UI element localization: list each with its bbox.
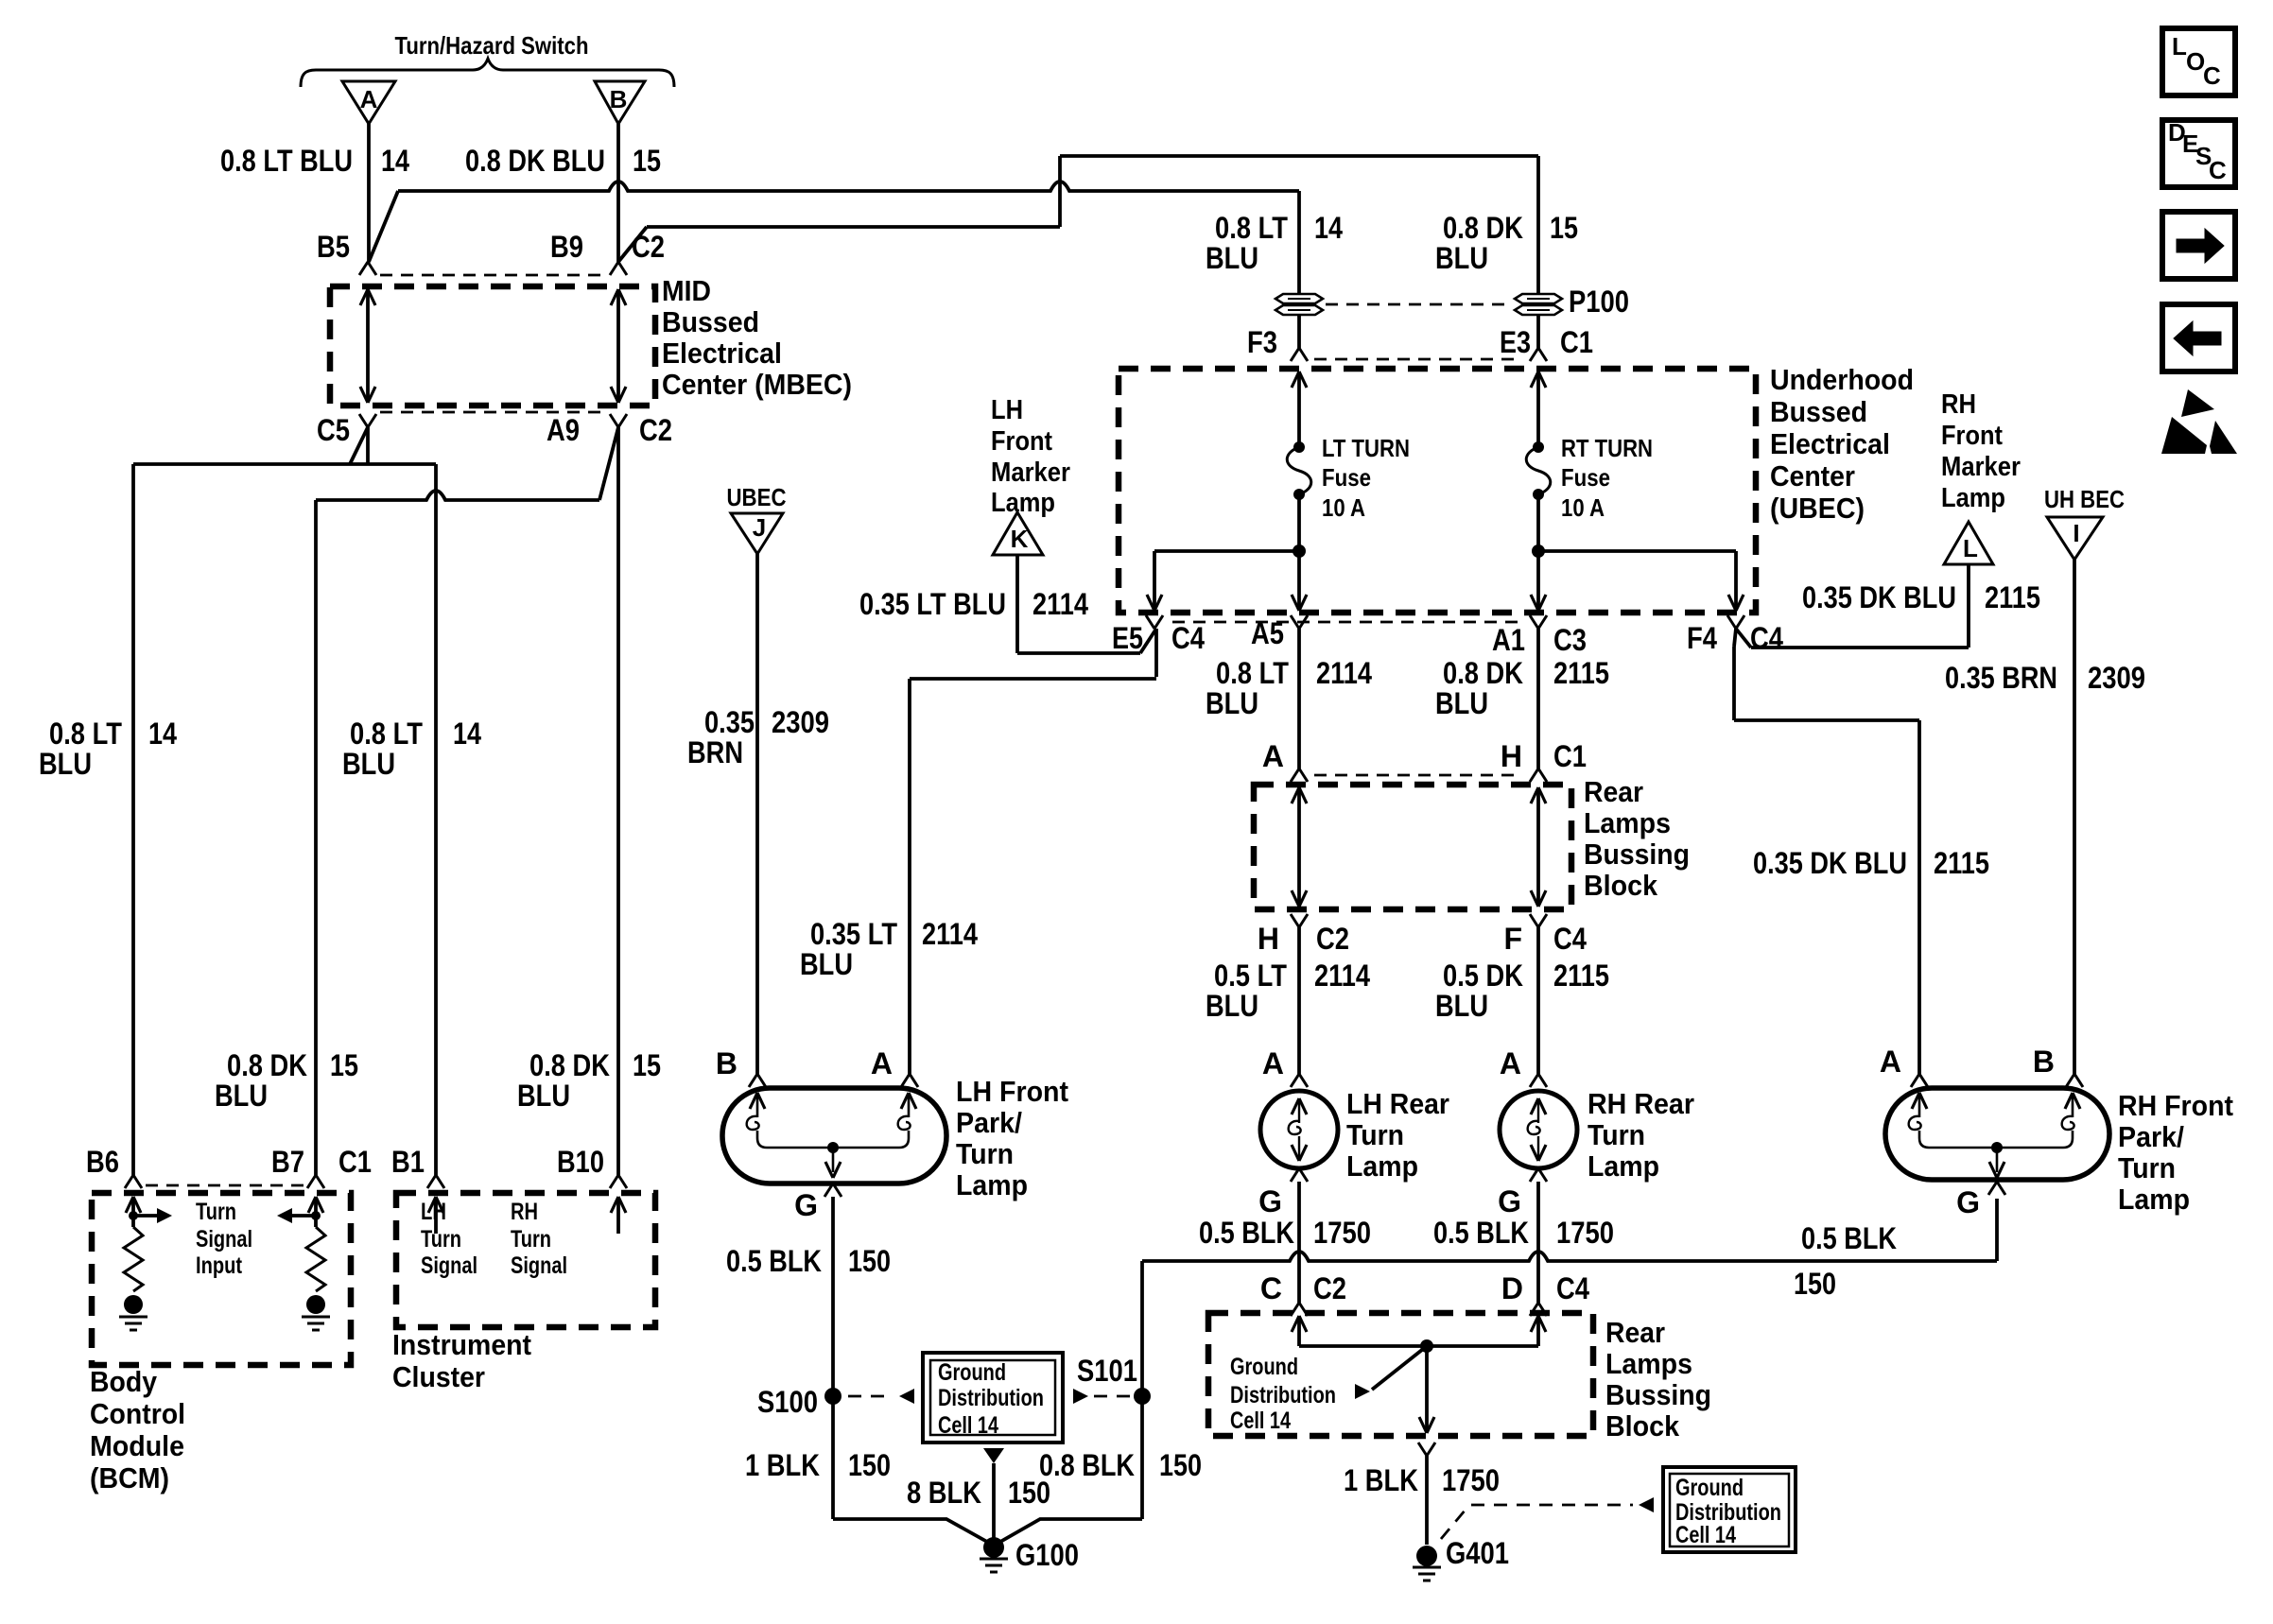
svg-text:LH: LH — [421, 1199, 446, 1225]
svg-text:Distribution: Distribution — [938, 1385, 1044, 1411]
svg-text:8 BLK: 8 BLK — [907, 1476, 981, 1510]
svg-text:H: H — [1258, 922, 1279, 956]
svg-text:Block: Block — [1605, 1409, 1680, 1443]
svg-text:G401: G401 — [1446, 1536, 1509, 1570]
svg-text:G: G — [1498, 1184, 1521, 1218]
svg-text:Block: Block — [1584, 869, 1658, 902]
svg-text:15: 15 — [330, 1048, 358, 1082]
svg-text:1 BLK: 1 BLK — [745, 1448, 820, 1482]
svg-text:C1: C1 — [1553, 739, 1587, 773]
svg-text:Turn: Turn — [1346, 1118, 1404, 1151]
svg-text:B: B — [610, 85, 628, 113]
svg-text:0.5 LT: 0.5 LT — [1214, 959, 1287, 993]
svg-text:BLU: BLU — [1206, 241, 1258, 275]
svg-text:Instrument: Instrument — [392, 1328, 531, 1361]
svg-text:2115: 2115 — [1934, 846, 1989, 880]
svg-text:A9: A9 — [547, 413, 580, 447]
svg-text:0.8 DK: 0.8 DK — [227, 1048, 307, 1082]
svg-text:0.35: 0.35 — [704, 705, 755, 739]
svg-text:Lamp: Lamp — [1588, 1149, 1659, 1183]
svg-text:LH Rear: LH Rear — [1346, 1087, 1449, 1120]
svg-text:Lamp: Lamp — [2118, 1183, 2190, 1216]
svg-text:A: A — [1880, 1045, 1901, 1079]
svg-text:BLU: BLU — [215, 1079, 268, 1113]
svg-text:2309: 2309 — [772, 705, 829, 739]
svg-text:0.8 LT: 0.8 LT — [49, 717, 122, 751]
svg-text:2115: 2115 — [1553, 959, 1609, 993]
svg-text:Turn/Hazard Switch: Turn/Hazard Switch — [395, 31, 589, 60]
svg-text:Turn: Turn — [2118, 1151, 2176, 1184]
svg-text:150: 150 — [1159, 1448, 1202, 1482]
svg-text:B: B — [716, 1046, 737, 1080]
svg-text:MID: MID — [662, 274, 711, 307]
svg-text:Center (MBEC): Center (MBEC) — [662, 368, 852, 401]
svg-text:LH: LH — [991, 395, 1023, 425]
svg-text:B9: B9 — [550, 230, 583, 264]
svg-text:B1: B1 — [391, 1145, 425, 1179]
svg-text:A: A — [871, 1046, 893, 1080]
svg-text:15: 15 — [633, 144, 661, 178]
svg-text:14: 14 — [453, 717, 481, 751]
svg-text:D: D — [1501, 1271, 1523, 1305]
svg-text:Turn: Turn — [421, 1226, 461, 1253]
svg-text:BLU: BLU — [1435, 989, 1488, 1023]
svg-text:Bussed: Bussed — [662, 305, 759, 338]
svg-text:0.8 LT: 0.8 LT — [1216, 656, 1289, 690]
svg-text:C2: C2 — [632, 230, 665, 264]
svg-text:Rear: Rear — [1584, 775, 1643, 808]
svg-text:(UBEC): (UBEC) — [1770, 492, 1865, 525]
svg-text:Module: Module — [90, 1429, 184, 1462]
svg-text:0.5 DK: 0.5 DK — [1443, 959, 1523, 993]
svg-text:Cell 14: Cell 14 — [1675, 1522, 1736, 1548]
svg-text:15: 15 — [1550, 211, 1578, 245]
svg-text:BLU: BLU — [800, 947, 853, 981]
svg-text:Park/: Park/ — [956, 1106, 1022, 1139]
svg-text:0.35 BRN: 0.35 BRN — [1945, 661, 2057, 695]
svg-text:Lamps: Lamps — [1584, 806, 1671, 839]
svg-text:Ground: Ground — [1675, 1475, 1744, 1501]
svg-text:Marker: Marker — [991, 458, 1070, 488]
svg-text:LH Front: LH Front — [956, 1075, 1068, 1108]
svg-text:0.5 BLK: 0.5 BLK — [726, 1244, 822, 1278]
svg-text:C1: C1 — [1560, 325, 1593, 359]
svg-text:Lamp: Lamp — [991, 488, 1055, 518]
svg-text:1750: 1750 — [1442, 1463, 1500, 1497]
svg-text:L: L — [1963, 534, 1978, 562]
svg-text:0.35 DK BLU: 0.35 DK BLU — [1753, 846, 1907, 880]
svg-text:F4: F4 — [1687, 621, 1717, 655]
svg-text:15: 15 — [633, 1048, 661, 1082]
svg-text:C: C — [2203, 61, 2221, 90]
svg-text:Park/: Park/ — [2118, 1120, 2184, 1153]
svg-text:G: G — [1258, 1184, 1282, 1218]
svg-text:150: 150 — [848, 1448, 891, 1482]
svg-text:2115: 2115 — [1553, 656, 1609, 690]
svg-text:Underhood: Underhood — [1770, 363, 1914, 396]
svg-text:A5: A5 — [1251, 616, 1284, 650]
svg-text:1750: 1750 — [1556, 1216, 1614, 1250]
svg-text:14: 14 — [1314, 211, 1343, 245]
svg-text:Front: Front — [1941, 421, 2003, 451]
svg-text:LT TURN: LT TURN — [1322, 434, 1410, 462]
svg-text:0.8 BLK: 0.8 BLK — [1039, 1448, 1135, 1482]
svg-text:C3: C3 — [1553, 623, 1587, 657]
svg-text:150: 150 — [848, 1244, 891, 1278]
svg-text:Body: Body — [90, 1365, 158, 1398]
svg-text:C4: C4 — [1750, 621, 1783, 655]
svg-text:P100: P100 — [1569, 285, 1629, 319]
svg-text:Ground: Ground — [1230, 1354, 1298, 1380]
svg-text:Lamp: Lamp — [1346, 1149, 1418, 1183]
svg-text:0.35 LT: 0.35 LT — [810, 917, 897, 951]
svg-text:E5: E5 — [1112, 621, 1143, 655]
svg-text:Turn: Turn — [511, 1226, 551, 1253]
svg-text:BRN: BRN — [687, 735, 743, 769]
svg-text:C2: C2 — [1313, 1271, 1346, 1305]
svg-text:Turn: Turn — [1588, 1118, 1645, 1151]
svg-text:0.8 LT: 0.8 LT — [1215, 211, 1288, 245]
svg-text:Signal: Signal — [421, 1253, 477, 1279]
svg-text:J: J — [753, 513, 766, 542]
svg-text:K: K — [1011, 525, 1029, 553]
svg-text:2114: 2114 — [1316, 656, 1372, 690]
svg-text:C: C — [2209, 156, 2227, 184]
svg-text:BLU: BLU — [1435, 241, 1488, 275]
svg-text:B5: B5 — [317, 230, 350, 264]
svg-text:L: L — [2172, 32, 2187, 60]
svg-text:UBEC: UBEC — [727, 483, 787, 511]
svg-text:Electrical: Electrical — [1770, 427, 1890, 460]
svg-text:14: 14 — [148, 717, 177, 751]
svg-text:H: H — [1501, 739, 1522, 773]
svg-text:A: A — [1262, 1046, 1284, 1080]
svg-text:Lamp: Lamp — [1941, 483, 2005, 513]
svg-text:C5: C5 — [317, 413, 350, 447]
svg-text:C1: C1 — [338, 1145, 372, 1179]
svg-text:Cluster: Cluster — [392, 1360, 485, 1393]
svg-text:S100: S100 — [757, 1385, 818, 1419]
svg-text:0.8 LT BLU: 0.8 LT BLU — [220, 144, 353, 178]
svg-text:B: B — [2033, 1045, 2055, 1079]
svg-text:2114: 2114 — [922, 917, 978, 951]
svg-text:RH: RH — [511, 1199, 538, 1225]
svg-text:2115: 2115 — [1985, 580, 2040, 614]
svg-text:B7: B7 — [271, 1145, 304, 1179]
svg-text:C4: C4 — [1171, 621, 1205, 655]
svg-text:S101: S101 — [1077, 1354, 1137, 1388]
svg-text:G: G — [1956, 1185, 1980, 1219]
svg-text:1750: 1750 — [1313, 1216, 1371, 1250]
svg-text:2114: 2114 — [1032, 587, 1088, 621]
svg-text:BLU: BLU — [1206, 989, 1258, 1023]
svg-text:Turn: Turn — [956, 1137, 1014, 1170]
svg-text:BLU: BLU — [1206, 686, 1258, 720]
svg-text:0.5 BLK: 0.5 BLK — [1433, 1216, 1529, 1250]
svg-text:B6: B6 — [86, 1145, 119, 1179]
svg-text:0.35 DK BLU: 0.35 DK BLU — [1802, 580, 1956, 614]
svg-text:Front: Front — [991, 426, 1052, 457]
svg-text:Rear: Rear — [1605, 1316, 1665, 1349]
svg-text:Cell 14: Cell 14 — [1230, 1408, 1291, 1434]
svg-text:Signal: Signal — [196, 1226, 252, 1253]
svg-text:Lamps: Lamps — [1605, 1347, 1692, 1380]
svg-text:RH Front: RH Front — [2118, 1089, 2233, 1122]
svg-text:14: 14 — [381, 144, 409, 178]
svg-text:0.5 BLK: 0.5 BLK — [1801, 1221, 1897, 1255]
svg-text:BLU: BLU — [1435, 686, 1488, 720]
svg-text:0.35 LT BLU: 0.35 LT BLU — [859, 587, 1006, 621]
svg-text:G: G — [794, 1188, 818, 1222]
svg-text:B10: B10 — [557, 1145, 604, 1179]
svg-text:G100: G100 — [1015, 1538, 1079, 1572]
svg-text:2309: 2309 — [2088, 661, 2145, 695]
svg-text:C2: C2 — [1316, 922, 1349, 956]
svg-text:10 A: 10 A — [1561, 493, 1605, 522]
svg-text:10 A: 10 A — [1322, 493, 1365, 522]
svg-text:150: 150 — [1794, 1267, 1836, 1301]
svg-text:RT TURN: RT TURN — [1561, 434, 1653, 462]
svg-text:A1: A1 — [1492, 623, 1525, 657]
svg-text:BLU: BLU — [517, 1079, 570, 1113]
svg-text:Turn: Turn — [196, 1199, 236, 1225]
svg-text:Lamp: Lamp — [956, 1168, 1028, 1201]
svg-text:C4: C4 — [1553, 922, 1587, 956]
svg-text:UH BEC: UH BEC — [2044, 485, 2125, 513]
svg-text:C4: C4 — [1556, 1271, 1589, 1305]
svg-text:F3: F3 — [1247, 325, 1277, 359]
svg-text:RH: RH — [1941, 389, 1976, 420]
svg-text:A: A — [1262, 739, 1284, 773]
svg-text:BLU: BLU — [39, 747, 92, 781]
svg-text:RH Rear: RH Rear — [1588, 1087, 1694, 1120]
svg-text:I: I — [2073, 519, 2079, 547]
svg-text:Bussed: Bussed — [1770, 395, 1867, 428]
svg-text:Fuse: Fuse — [1322, 463, 1371, 492]
svg-text:Bussing: Bussing — [1584, 838, 1690, 871]
svg-text:Input: Input — [196, 1253, 243, 1279]
svg-text:C2: C2 — [639, 413, 672, 447]
svg-text:Ground: Ground — [938, 1359, 1006, 1386]
svg-text:C: C — [1260, 1271, 1282, 1305]
svg-text:A: A — [1500, 1046, 1521, 1080]
svg-text:(BCM): (BCM) — [90, 1461, 169, 1494]
svg-text:0.8 DK: 0.8 DK — [1443, 211, 1523, 245]
svg-text:E3: E3 — [1500, 325, 1531, 359]
svg-text:Center: Center — [1770, 459, 1855, 492]
svg-text:0.8 DK: 0.8 DK — [529, 1048, 610, 1082]
svg-text:0.8 LT: 0.8 LT — [350, 717, 423, 751]
svg-text:0.8 DK BLU: 0.8 DK BLU — [465, 144, 605, 178]
svg-text:Marker: Marker — [1941, 452, 2021, 482]
svg-text:Control: Control — [90, 1397, 185, 1430]
svg-text:0.8 DK: 0.8 DK — [1443, 656, 1523, 690]
svg-text:Cell 14: Cell 14 — [938, 1412, 998, 1439]
svg-text:2114: 2114 — [1314, 959, 1370, 993]
svg-text:Fuse: Fuse — [1561, 463, 1610, 492]
svg-text:Electrical: Electrical — [662, 337, 782, 370]
svg-text:0.5 BLK: 0.5 BLK — [1199, 1216, 1294, 1250]
svg-text:Distribution: Distribution — [1230, 1382, 1336, 1408]
svg-text:Bussing: Bussing — [1605, 1378, 1711, 1411]
svg-text:F: F — [1503, 922, 1522, 956]
svg-text:BLU: BLU — [342, 747, 395, 781]
svg-text:1 BLK: 1 BLK — [1344, 1463, 1418, 1497]
svg-text:Signal: Signal — [511, 1253, 567, 1279]
svg-text:A: A — [360, 85, 378, 113]
